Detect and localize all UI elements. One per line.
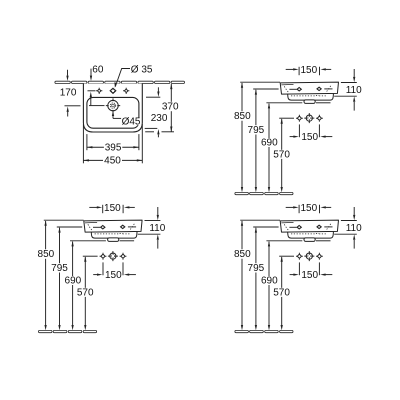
- tap hole Ø35: [110, 88, 116, 93]
- optional tap hole left: [96, 88, 102, 94]
- svg-text:Ø45: Ø45: [122, 117, 141, 128]
- inner bowl outline: [87, 97, 139, 128]
- dimension 230 (bowl depth): [145, 87, 174, 137]
- wall line (tiled): [55, 81, 70, 83]
- svg-text:370: 370: [162, 102, 179, 113]
- label Ø45 with leader: [112, 111, 141, 128]
- panel: front view (top right): [234, 65, 362, 195]
- drain hole Ø45: [106, 98, 120, 112]
- svg-text:170: 170: [60, 87, 77, 98]
- tap hole centre tick: [88, 90, 96, 92]
- dimension 60 (wall to tap hole): [90, 65, 104, 106]
- basin outer outline: [83, 84, 142, 133]
- optional tap hole right: [123, 88, 129, 94]
- dimension 450 (basin width): [83, 124, 142, 166]
- svg-text:450: 450: [104, 155, 121, 166]
- dimension 370 (basin depth): [162, 84, 179, 132]
- drain centre tick: [89, 105, 105, 107]
- dimension 170 (wall to drain): [60, 70, 81, 117]
- panel: plan view (top left): [55, 64, 185, 166]
- svg-text:395: 395: [105, 142, 122, 153]
- dimension 395 (bowl width): [87, 134, 139, 153]
- panel: front view (bottom right): [234, 203, 362, 333]
- panel: front view (bottom left): [38, 203, 166, 333]
- svg-text:60: 60: [92, 65, 104, 76]
- label Ø 35 with leader: [114, 64, 153, 87]
- svg-text:Ø 35: Ø 35: [131, 64, 153, 75]
- svg-text:230: 230: [151, 113, 168, 124]
